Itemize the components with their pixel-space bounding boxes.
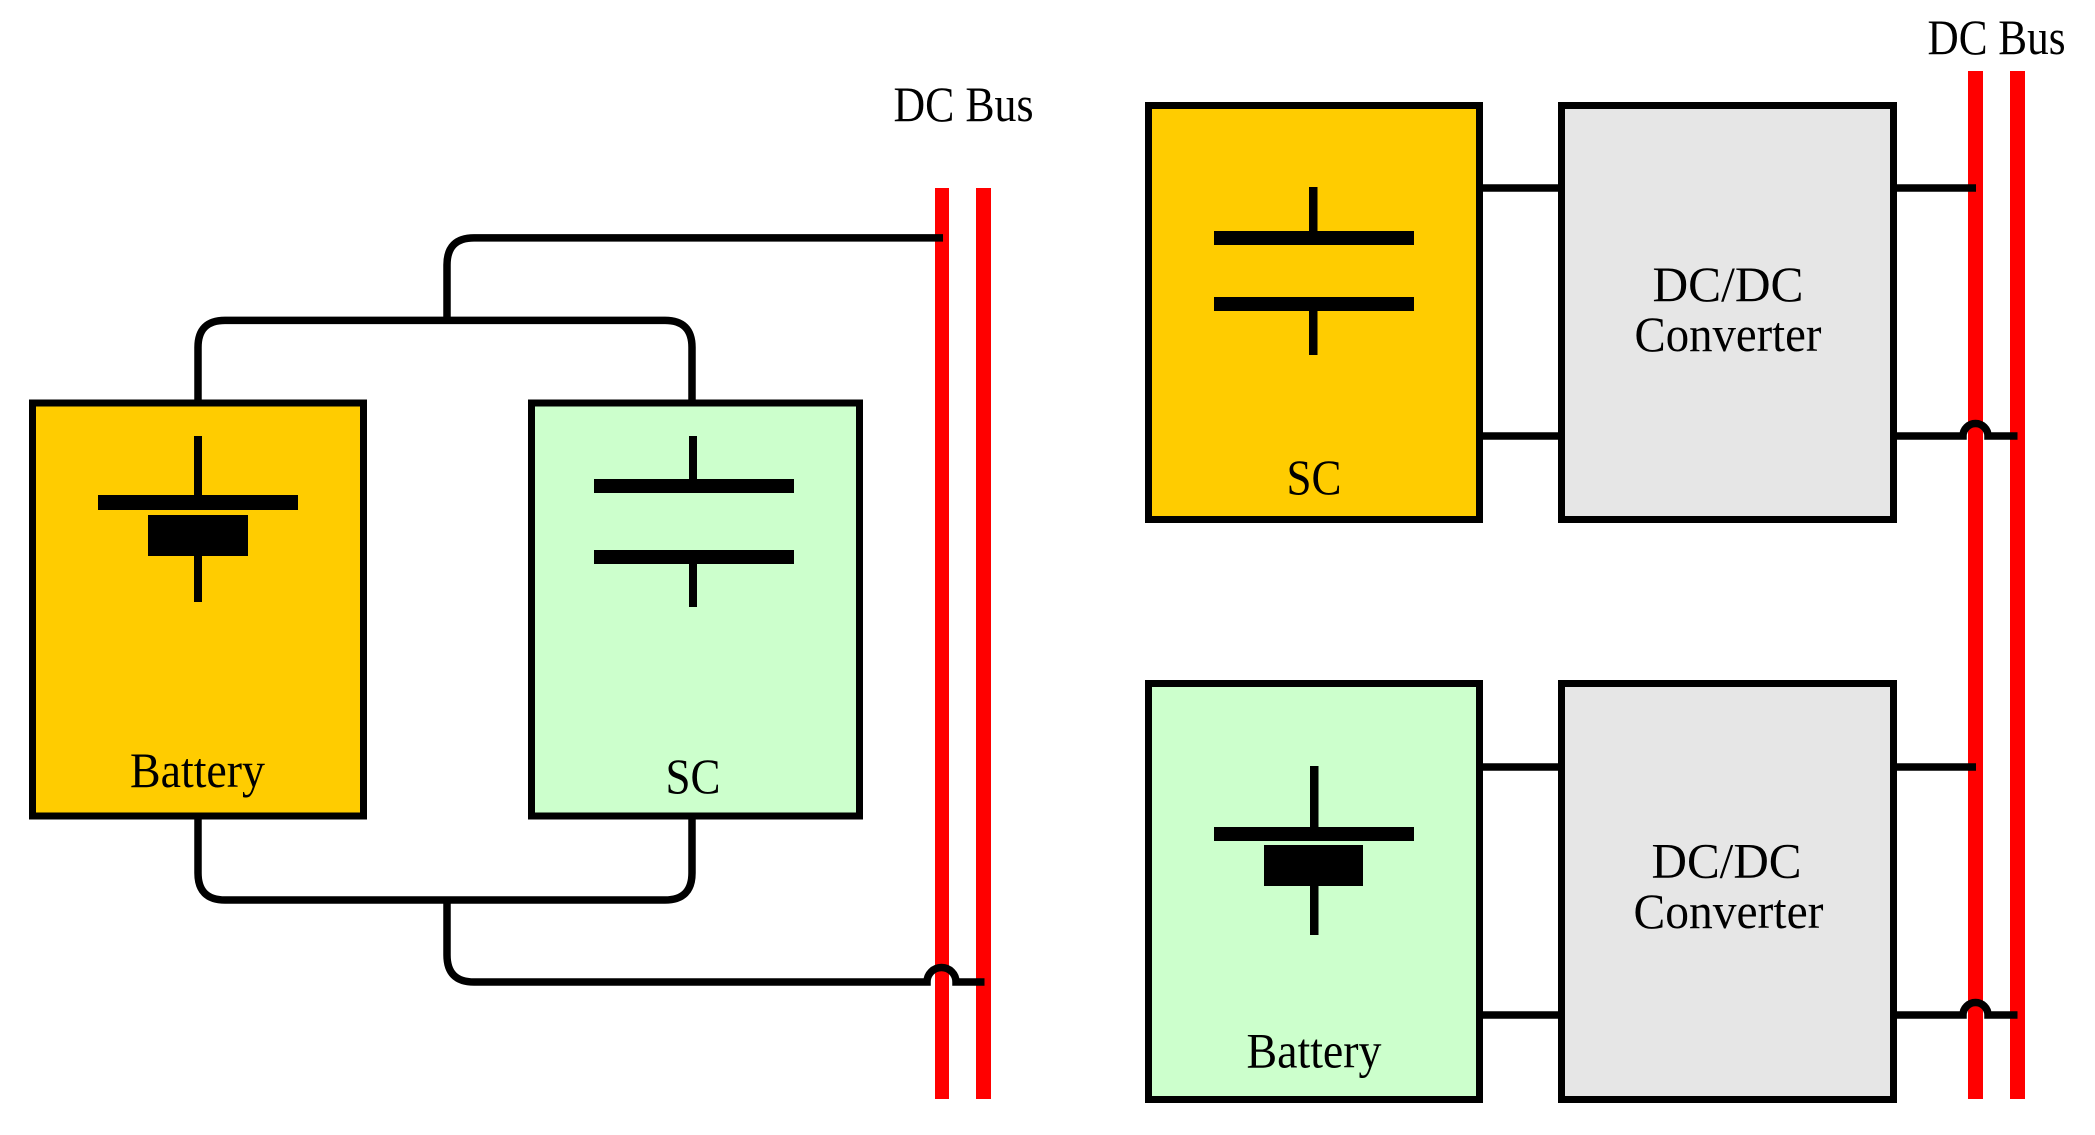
- wire SC to converter positive: [1480, 184, 1561, 192]
- wire battery top to SC top: [198, 320, 692, 403]
- battery symbol left: negative plate: [148, 515, 248, 556]
- wire battery to converter positive: [1480, 763, 1561, 771]
- wire converter to bus negative top group with hop: [1894, 424, 2018, 437]
- battery symbol left: top lead: [194, 436, 202, 495]
- battery box right bottom: [1149, 684, 1480, 1100]
- battery box left: [33, 403, 364, 816]
- svg-text:SC: SC: [1287, 450, 1342, 505]
- wire battery to converter negative: [1480, 1011, 1561, 1019]
- SC box left: [532, 403, 860, 816]
- DC bus left line 2: [976, 188, 991, 1099]
- wire converter to bus positive top group: [1894, 184, 1976, 192]
- svg-text:Battery: Battery: [130, 743, 265, 798]
- capacitor symbol right: bottom lead: [1309, 311, 1318, 355]
- svg-text:DC/DC: DC/DC: [1653, 257, 1804, 312]
- DC/DC converter box top: [1562, 106, 1894, 520]
- capacitor symbol left: top lead: [689, 436, 697, 479]
- svg-text:SC: SC: [666, 749, 721, 804]
- DC bus left line 1: [935, 188, 949, 1099]
- battery symbol right: positive plate: [1214, 827, 1414, 841]
- capacitor symbol right: top plate: [1214, 231, 1414, 245]
- capacitor symbol left: top plate: [594, 479, 794, 493]
- capacitor symbol left: bottom plate: [594, 550, 794, 564]
- svg-text:Converter: Converter: [1635, 307, 1822, 362]
- svg-text:Converter: Converter: [1634, 884, 1824, 939]
- svg-text:DC Bus: DC Bus: [894, 77, 1034, 132]
- battery symbol left: bottom lead: [194, 556, 202, 602]
- capacitor symbol right: bottom plate: [1214, 297, 1414, 311]
- battery symbol left: positive plate: [98, 495, 298, 510]
- wire bottom node to DC bus negative with hop: [447, 898, 985, 982]
- battery symbol right: bottom lead: [1310, 886, 1319, 935]
- battery symbol right: negative plate: [1264, 845, 1363, 886]
- DC bus right line 2: [2010, 71, 2025, 1099]
- capacitor symbol left: bottom lead: [689, 564, 697, 607]
- capacitor symbol right: top lead: [1309, 187, 1318, 231]
- SC box right top: [1149, 106, 1480, 520]
- wire converter to bus positive bottom group: [1894, 763, 1976, 771]
- battery symbol right: top lead: [1310, 766, 1319, 827]
- DC/DC converter box bottom: [1562, 684, 1894, 1100]
- svg-text:Battery: Battery: [1247, 1024, 1382, 1079]
- svg-text:DC/DC: DC/DC: [1652, 834, 1802, 889]
- wire battery bottom to SC bottom: [198, 816, 692, 900]
- svg-text:DC Bus: DC Bus: [1928, 10, 2066, 65]
- wire SC to converter negative: [1480, 432, 1561, 440]
- wire converter to bus negative bottom group with hop: [1894, 1002, 2018, 1015]
- wire node riser to DC bus positive: [447, 238, 943, 324]
- DC bus right line 1: [1968, 71, 1983, 1099]
